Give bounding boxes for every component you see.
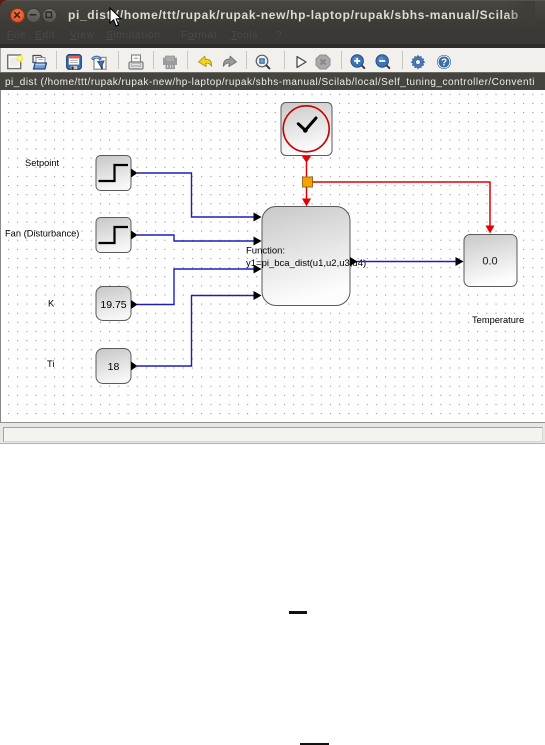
block dump icon xyxy=(162,54,178,70)
minimize button xyxy=(26,8,41,23)
red event wire: link point right and down to display block xyxy=(313,182,491,227)
svg-text:Ti: Ti xyxy=(47,359,54,369)
tab strip xyxy=(0,72,545,90)
constant block Ti = 18 xyxy=(96,349,131,384)
export icon xyxy=(91,54,107,70)
dash mark 1 xyxy=(289,611,307,614)
clock block CLOCK_c xyxy=(281,103,332,156)
step Fan output port xyxy=(131,231,138,240)
title bar xyxy=(0,0,9,11)
wire Fan to function input 2 xyxy=(137,235,254,241)
window title xyxy=(68,8,519,22)
display block AFFICH_m (0.0) xyxy=(464,235,517,287)
svg-text:19.75: 19.75 xyxy=(100,299,126,311)
start simulation icon xyxy=(293,54,309,70)
svg-text:0.0: 0.0 xyxy=(482,256,497,268)
redo icon xyxy=(222,54,238,70)
diagram canvas xyxy=(0,90,545,422)
status bar xyxy=(0,422,545,444)
toolbar xyxy=(0,48,545,72)
wire function output to display xyxy=(357,261,456,263)
constant block K = 19.75 xyxy=(96,287,131,321)
clock output event port xyxy=(302,156,311,163)
svg-text:?: ? xyxy=(441,58,447,69)
dash mark 2 xyxy=(300,743,329,745)
undo icon xyxy=(197,54,213,70)
svg-text:K: K xyxy=(48,299,55,309)
mouse cursor xyxy=(109,7,123,28)
wire Ti to function input 4 xyxy=(137,296,254,367)
svg-text:Fan (Disturbance): Fan (Disturbance) xyxy=(5,229,79,239)
link split point xyxy=(303,177,313,187)
wire Setpoint to function input 1 xyxy=(137,173,254,217)
help icon xyxy=(436,54,452,70)
close button xyxy=(10,8,25,23)
maximize button xyxy=(42,8,57,23)
menu bar xyxy=(0,28,545,44)
stop simulation icon xyxy=(315,54,331,70)
svg-text:y1=pi_bca_dist(u1,u2,u3,u4): y1=pi_bca_dist(u1,u2,u3,u4) xyxy=(246,258,366,269)
function block scifunc pi_bca_dist xyxy=(262,207,350,306)
constant Ti output port xyxy=(131,362,138,371)
function block label xyxy=(246,246,366,270)
step block STEP_FUNCTION (Fan) xyxy=(96,218,131,253)
step Setpoint output port xyxy=(131,169,138,178)
title fade overlay xyxy=(505,1,535,29)
red event wire: clock to link point xyxy=(306,163,308,178)
xcos demos gear icon xyxy=(410,54,426,70)
red event wire: link point down to function block xyxy=(306,187,308,200)
print icon xyxy=(128,54,144,70)
svg-text:Function:: Function: xyxy=(246,246,285,257)
wire K to function input 3 xyxy=(137,269,254,305)
svg-text:18: 18 xyxy=(108,361,120,373)
zoom fit icon xyxy=(255,54,271,70)
open icon xyxy=(31,54,47,70)
function block output port xyxy=(350,257,358,266)
svg-text:Temperature: Temperature xyxy=(472,315,524,325)
new diagram icon xyxy=(7,54,23,70)
save icon xyxy=(66,54,82,70)
zoom out icon xyxy=(375,54,391,70)
svg-text:Setpoint: Setpoint xyxy=(25,158,60,168)
constant K output port xyxy=(131,300,138,309)
step block STEP_FUNCTION (Setpoint) xyxy=(96,156,131,191)
zoom in icon xyxy=(350,54,366,70)
